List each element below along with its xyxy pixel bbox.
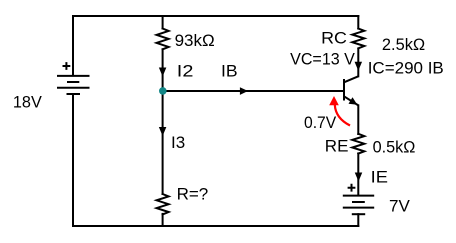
svg-text:7V: 7V [389,197,410,216]
svg-text:IB: IB [221,61,238,80]
current arrow IB head [240,87,248,95]
wire collector (RC to transistor) [357,49,359,76]
svg-text:RC: RC [321,29,347,48]
wire battery V2 to bottom rail [357,214,359,226]
battery V2 7V [343,184,374,214]
annotation arrow VBE 0.7V (red curved arrow) [329,96,350,126]
wire right branch upper [357,16,359,29]
svg-text:IC=290 IB: IC=290 IB [368,59,444,78]
wire emitter vertical [357,105,359,134]
current arrow I2 head [159,68,167,77]
current arrow IC head [355,62,363,71]
battery V1 18V [57,62,90,94]
wire RE to battery V2 [357,153,359,195]
wire left branch upper (to battery V1) [72,16,74,75]
resistor RE 0.5kOhm [352,134,364,154]
svg-text:18V: 18V [13,92,43,111]
wire bottom rail [73,225,358,227]
wire R=? to bottom rail [162,214,164,226]
transistor Q1 emitter arrowhead [349,97,358,105]
current arrow IE head [355,173,363,182]
wire middle branch upper [162,16,164,29]
wire base (node B to transistor base) [163,90,344,92]
svg-text:R=?: R=? [177,185,209,204]
resistor R2 R=? [157,194,169,214]
svg-text:93kΩ: 93kΩ [175,31,215,50]
svg-text:RE: RE [325,137,349,156]
current arrow I3 head [159,127,167,136]
wire left branch lower (battery V1 to bottom rail) [72,94,74,226]
node B junction dot [159,87,167,95]
svg-text:0.7V: 0.7V [304,113,337,132]
svg-text:I2: I2 [177,61,194,80]
svg-text:VC=13 V: VC=13 V [290,50,355,69]
svg-text:2.5kΩ: 2.5kΩ [382,35,425,54]
transistor Q1 NPN [344,76,358,105]
resistor R1 93kOhm [157,29,169,50]
resistor RC 2.5kOhm [352,29,364,49]
svg-text:IE: IE [371,167,388,186]
wire node B to R lower branch [162,91,164,194]
wire top rail [73,15,358,17]
svg-text:0.5kΩ: 0.5kΩ [373,138,416,157]
wire middle branch (resistor 93k to node B) [162,49,164,91]
svg-text:I3: I3 [171,133,185,152]
